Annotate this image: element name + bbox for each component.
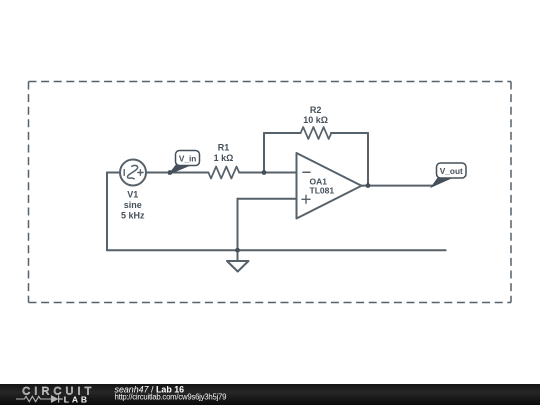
op-amp inverting pin mark <box>303 171 310 173</box>
net flag V_out <box>432 163 467 187</box>
svg-text:R1: R1 <box>218 143 230 153</box>
wire: feedback left vertical <box>263 133 265 173</box>
voltage source V1 <box>120 160 146 186</box>
svg-text:1 kΩ: 1 kΩ <box>214 153 234 163</box>
node: V_in junction dot <box>168 170 173 175</box>
wire: left vertical drop <box>106 173 108 251</box>
dashed annotation box <box>29 82 512 303</box>
op-amp non-inverting pin mark <box>302 195 310 203</box>
svg-text:LAB: LAB <box>64 394 90 404</box>
ground symbol <box>227 250 249 271</box>
svg-text:10 kΩ: 10 kΩ <box>303 115 328 125</box>
wire: R1 to op-amp inverting input <box>239 172 296 174</box>
svg-text:http://circuitlab.com/cw9s6jy3: http://circuitlab.com/cw9s6jy3h5j79 <box>115 392 227 401</box>
wire: op-amp output stub <box>362 185 369 187</box>
net flag V_in <box>169 151 199 174</box>
wire: non-inverting drop to ground rail <box>237 199 239 250</box>
wire: feedback top right <box>331 132 368 134</box>
node: output junction dot <box>366 183 371 188</box>
label OA1 TL081 <box>310 176 335 195</box>
wire: feedback top left <box>264 132 301 134</box>
svg-text:sine: sine <box>124 200 142 210</box>
svg-text:V_out: V_out <box>440 166 463 176</box>
CircuitLab logo: diode triangle <box>52 395 59 402</box>
svg-text:R2: R2 <box>310 105 322 115</box>
svg-text:V1: V1 <box>127 190 138 200</box>
wire: output to V_out <box>368 185 432 187</box>
op-amp OA1 triangle <box>297 153 362 219</box>
svg-text:TL081: TL081 <box>310 185 335 195</box>
wire: op-amp non-inverting input <box>238 198 297 200</box>
node: inverting input junction dot <box>262 170 267 175</box>
wire: V1 left stub <box>107 172 120 174</box>
wire: V1 to R1 <box>146 172 208 174</box>
wire: feedback right vertical <box>367 133 369 186</box>
resistor R2 <box>301 127 332 139</box>
CircuitLab logo: resistor-diode squiggle <box>16 395 63 402</box>
label R2 value <box>303 105 328 125</box>
svg-text:5 kHz: 5 kHz <box>121 210 145 220</box>
label V1 value <box>121 190 145 221</box>
footer bar <box>0 384 540 405</box>
svg-text:V_in: V_in <box>179 153 197 163</box>
node: ground junction dot <box>235 248 240 253</box>
resistor R1 <box>208 167 239 179</box>
label R1 value <box>214 143 234 163</box>
wire: bottom ground rail <box>107 249 446 251</box>
